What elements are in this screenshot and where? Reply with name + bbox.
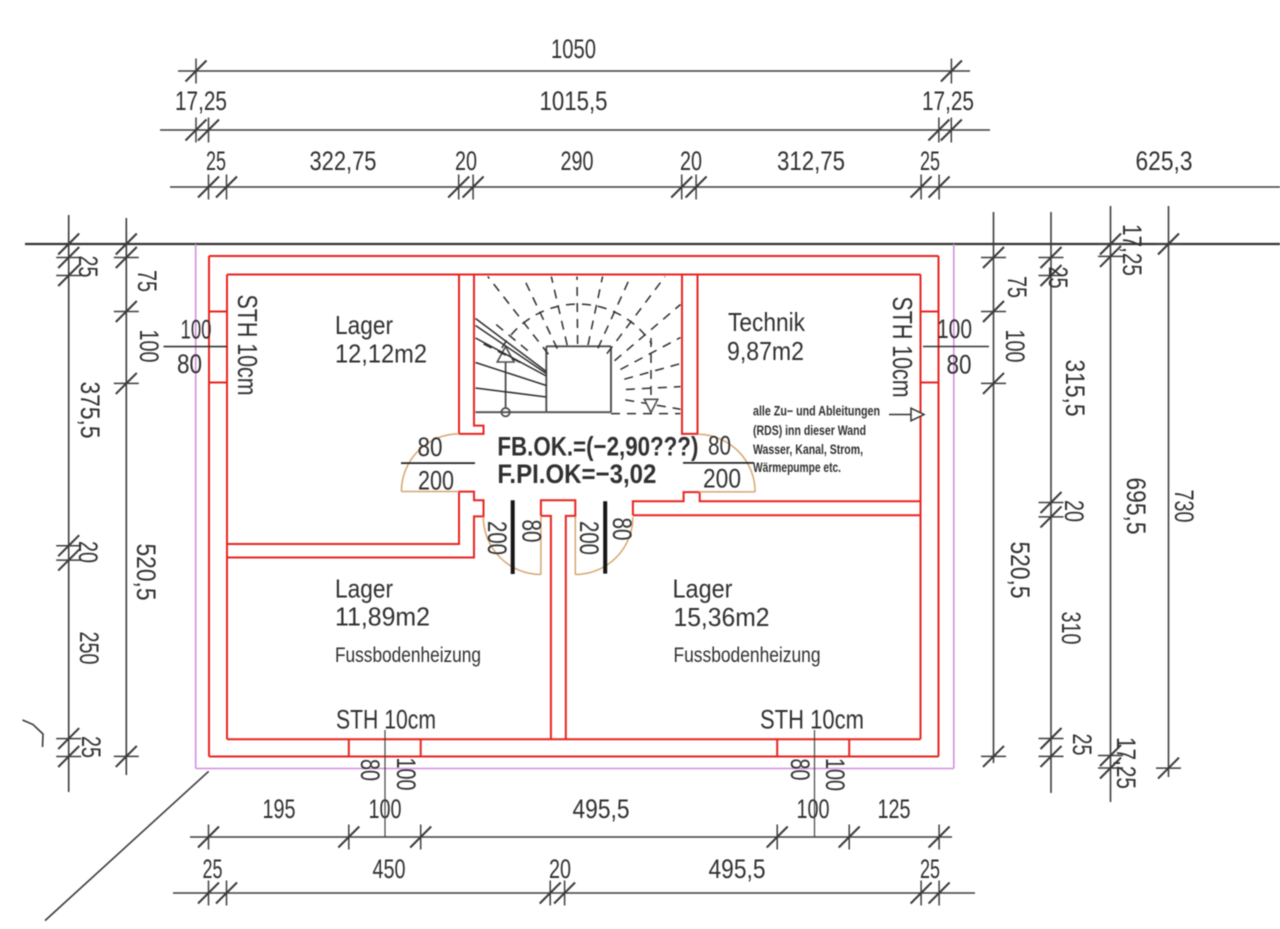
svg-text:STH 10cm: STH 10cm: [336, 705, 436, 735]
tick b1 5: [938, 825, 940, 850]
door2 arc: [483, 517, 541, 575]
tick b1 1: [348, 825, 350, 850]
svg-text:75: 75: [132, 270, 162, 292]
outer wall bottom: [209, 756, 939, 758]
svg-text:495,5: 495,5: [709, 854, 766, 884]
tick b1 2: [420, 825, 422, 850]
svg-text:520,5: 520,5: [131, 544, 161, 601]
stair void bottom edge: [546, 411, 611, 413]
svg-text:450: 450: [373, 854, 406, 884]
lager11 north wall: [227, 492, 484, 558]
svg-text:730: 730: [1169, 490, 1199, 523]
left dim line v1: [68, 215, 70, 792]
tick top1 right: [950, 59, 952, 84]
svg-text:625,3: 625,3: [1136, 146, 1193, 176]
stair walking base line: [476, 411, 547, 413]
stair winder dashed ray 8: [598, 277, 631, 349]
boundary diagonal line: [45, 771, 209, 920]
svg-text:20: 20: [549, 854, 571, 884]
svg-text:STH 10cm: STH 10cm: [887, 297, 918, 398]
outer wall left: [208, 256, 210, 757]
svg-text:17,25: 17,25: [1111, 737, 1141, 789]
svg-text:Fussbodenheizung: Fussbodenheizung: [674, 644, 821, 667]
tick b1 3: [776, 825, 778, 850]
svg-text:495,5: 495,5: [573, 794, 630, 824]
door1 arc: [401, 434, 459, 492]
tick vA 2: [981, 382, 1006, 384]
tick vC 1: [1098, 255, 1123, 257]
svg-text:290: 290: [561, 146, 594, 176]
svg-text:100: 100: [1000, 330, 1030, 363]
svg-text:Fussbodenheizung: Fussbodenheizung: [335, 644, 481, 667]
tick vA 0: [981, 257, 1006, 259]
right dim line vD: [1168, 206, 1170, 777]
tick b2 3: [564, 881, 566, 906]
svg-text:17,25: 17,25: [1117, 224, 1147, 276]
tick b1 4: [848, 825, 850, 850]
svg-text:125: 125: [878, 794, 911, 824]
inner wall bottom: [227, 738, 921, 740]
magenta line right: [953, 244, 955, 769]
svg-text:375,5: 375,5: [75, 382, 105, 439]
tick top3 4: [681, 175, 683, 200]
svg-text:Lager: Lager: [335, 310, 393, 340]
door1 leaf: [401, 491, 459, 493]
stair void right edge: [610, 346, 612, 412]
dimension line top chain 1 (1050): [178, 70, 970, 72]
tick b2 4: [920, 881, 922, 906]
svg-text:100: 100: [134, 330, 164, 363]
dimension line top chain 2 (17,25 / 1015,5 / 17,25): [160, 129, 990, 131]
svg-text:200: 200: [482, 521, 512, 555]
tick b2 5: [938, 881, 940, 906]
svg-text:11,89m2: 11,89m2: [335, 602, 430, 632]
stair tread line 3: [476, 338, 547, 376]
stair winder dashed ray 12: [624, 364, 680, 380]
left dim line v2: [125, 218, 127, 775]
svg-text:9,87m2: 9,87m2: [727, 336, 804, 366]
svg-text:80: 80: [418, 432, 443, 462]
door3 panel line: [603, 501, 607, 573]
STH stub right wall bottom: [921, 382, 939, 384]
STH stub right wall top: [921, 311, 939, 313]
tick vB 0: [1039, 257, 1064, 259]
stair winder dashed ray 2: [492, 321, 528, 351]
tick vB 2: [1039, 502, 1064, 504]
tick vC 0: [1098, 243, 1123, 245]
tick v2 1: [114, 311, 139, 313]
tick top2 d: [950, 118, 952, 143]
svg-text:25: 25: [920, 146, 940, 176]
tick v1 5: [56, 756, 81, 758]
svg-text:STH 10cm: STH 10cm: [760, 705, 864, 735]
magenta line left: [195, 244, 197, 769]
stair winder dashed ray 4: [523, 277, 557, 349]
svg-text:1015,5: 1015,5: [540, 86, 608, 116]
magenta line bottom: [196, 768, 954, 770]
tick v1 4: [56, 738, 81, 740]
svg-text:80: 80: [947, 350, 972, 380]
door1 fraction line: [401, 462, 475, 464]
svg-text:195: 195: [263, 794, 296, 824]
svg-text:(RDS) inn dieser Wand: (RDS) inn dieser Wand: [753, 423, 866, 438]
svg-text:17,25: 17,25: [922, 86, 974, 116]
svg-text:20: 20: [1059, 500, 1089, 522]
stair winder dashed ray 13: [626, 387, 681, 390]
stair winder dashed ray 5: [551, 277, 567, 346]
svg-text:17,25: 17,25: [175, 86, 227, 116]
stair walking start circle: [501, 408, 509, 416]
stair tread line 5: [476, 388, 547, 397]
right dim line vB: [1050, 212, 1052, 793]
tick vC 3: [1098, 767, 1123, 769]
svg-text:200: 200: [418, 466, 454, 496]
tick top3 5: [695, 175, 697, 200]
stair void top edge: [546, 345, 611, 347]
svg-text:Lager: Lager: [673, 574, 733, 604]
tick b1 0: [208, 825, 210, 850]
right STH line: [923, 346, 989, 348]
svg-text:322,75: 322,75: [310, 146, 377, 176]
tick top3 7: [938, 175, 940, 200]
stair tread line 1: [476, 319, 547, 372]
svg-text:100: 100: [181, 315, 212, 345]
tick ref x68: [68, 232, 70, 257]
reference line y244: [25, 243, 1280, 245]
svg-text:12,12m2: 12,12m2: [335, 339, 427, 369]
tick v1 1: [56, 275, 81, 277]
svg-text:20: 20: [73, 541, 103, 563]
svg-text:80: 80: [708, 431, 731, 461]
door4 arc: [699, 434, 755, 492]
right dim line vC: [1110, 206, 1112, 802]
svg-text:25: 25: [206, 146, 226, 176]
tick vD 1: [1156, 767, 1181, 769]
svg-text:20: 20: [680, 146, 702, 176]
door4 leaf: [699, 491, 755, 493]
tick vB 1: [1039, 275, 1064, 277]
svg-text:310: 310: [1056, 612, 1086, 645]
svg-text:100: 100: [391, 758, 421, 791]
tick vA 3: [981, 755, 1006, 757]
tick top3 1: [226, 175, 228, 200]
svg-text:Wasser, Kanal, Strom,: Wasser, Kanal, Strom,: [753, 442, 863, 457]
tick top2 b: [208, 118, 210, 143]
tick top2 a: [195, 118, 197, 143]
stair winder dashed ray 6: [576, 277, 579, 345]
stair winder dashed ray 1: [478, 341, 520, 362]
lager15 north wall band: [633, 492, 921, 515]
stair winder dashed ray 3: [488, 277, 549, 355]
STH stub bottom wall left a: [348, 739, 350, 756]
central T wall: [541, 500, 575, 739]
tick v2 0: [114, 257, 139, 259]
svg-text:25: 25: [73, 256, 103, 278]
bottom dim line b2: [173, 892, 975, 894]
tick b2 2: [549, 881, 551, 906]
tick vB 4: [1039, 738, 1064, 740]
svg-text:20: 20: [455, 146, 477, 176]
svg-text:250: 250: [74, 632, 104, 665]
svg-text:315,5: 315,5: [1060, 360, 1090, 417]
svg-text:695,5: 695,5: [1121, 478, 1151, 535]
door4 fraction line: [683, 462, 754, 464]
stair down arrowhead: [644, 399, 657, 412]
note arrow: [889, 414, 911, 416]
svg-text:520,5: 520,5: [1005, 542, 1035, 599]
tick top2 c: [938, 118, 940, 143]
STH stub bottom wall right b: [848, 739, 850, 756]
stair walking up arrowhead: [497, 347, 514, 363]
door3 arc: [575, 517, 633, 575]
STH stub bottom wall left b: [420, 739, 422, 756]
right dim line vA: [993, 212, 995, 763]
stair void left edge: [545, 346, 547, 412]
svg-text:F.PI.OK=−3,02: F.PI.OK=−3,02: [497, 459, 656, 489]
tick vC 2: [1098, 755, 1123, 757]
tick top3 0: [208, 175, 210, 200]
door3 leaf: [574, 517, 576, 575]
tick top3 3: [472, 175, 474, 200]
stair winder dashed ray 7: [588, 277, 603, 346]
bottom dim line b1: [190, 836, 952, 838]
svg-text:80: 80: [785, 759, 815, 781]
svg-text:15,36m2: 15,36m2: [674, 602, 770, 632]
STH stub bottom wall right a: [776, 739, 778, 756]
svg-text:80: 80: [517, 520, 547, 543]
svg-text:75: 75: [1002, 276, 1032, 298]
svg-text:80: 80: [355, 759, 385, 781]
svg-text:200: 200: [574, 521, 604, 555]
tick top3 6: [920, 175, 922, 200]
tick b2 0: [208, 881, 210, 906]
svg-text:80: 80: [177, 349, 202, 379]
STH stub left wall top: [209, 311, 227, 313]
tick vA 1: [981, 311, 1006, 313]
svg-text:100: 100: [820, 758, 850, 791]
stair down dashed line: [650, 338, 652, 399]
svg-text:80: 80: [607, 518, 637, 541]
stair tread line 4: [476, 363, 547, 386]
bottom right STH vline: [814, 730, 816, 837]
tick top1 left: [195, 59, 197, 84]
svg-text:25: 25: [1043, 267, 1073, 289]
tick ref x126: [125, 232, 127, 257]
stair winder dashed ray 9: [607, 277, 665, 354]
dimension line top chain 3 (25/322,75/20/290/20/312,75/25/625,3): [170, 186, 1280, 188]
tick vB 3: [1039, 516, 1064, 518]
inner wall left: [226, 275, 228, 740]
tick v1 0: [56, 257, 81, 259]
tick top3 2: [458, 175, 460, 200]
left STH line: [164, 346, 228, 348]
stair west wall: [459, 275, 484, 434]
inner wall right: [920, 275, 922, 740]
tick v2 3: [114, 755, 139, 757]
break mark squiggle: [23, 720, 44, 747]
svg-text:25: 25: [920, 854, 940, 884]
svg-text:STH 10cm: STH 10cm: [232, 295, 263, 396]
stair winder dashed ray 14: [625, 400, 680, 409]
door2 leaf: [540, 517, 542, 575]
tick vD 0: [1156, 243, 1181, 245]
tick v2 2: [114, 382, 139, 384]
svg-text:Lager: Lager: [335, 574, 393, 604]
svg-text:1050: 1050: [551, 34, 596, 64]
svg-text:alle Zu− und Ableitungen: alle Zu− und Ableitungen: [753, 404, 880, 419]
stair winder dashed ray 10: [615, 305, 681, 361]
svg-text:312,75: 312,75: [777, 146, 845, 176]
stair tread line 2: [476, 326, 547, 374]
stair void dashed bottom: [611, 413, 681, 415]
tick vB 5: [1039, 755, 1064, 757]
bottom left STH vline: [384, 730, 386, 837]
outer wall right: [938, 256, 940, 757]
svg-text:FB.OK.=(−2,90???): FB.OK.=(−2,90???): [497, 432, 698, 462]
tick v1 2: [56, 545, 81, 547]
stair walking dashed arc: [502, 304, 652, 348]
stair east wall: [682, 275, 698, 434]
svg-text:200: 200: [703, 464, 741, 494]
svg-text:25: 25: [203, 854, 223, 884]
door2 panel line: [511, 500, 515, 574]
svg-text:25: 25: [1067, 734, 1097, 756]
svg-text:100: 100: [937, 314, 972, 344]
stair walking up line: [505, 362, 507, 409]
inner wall top: [227, 274, 921, 276]
svg-text:25: 25: [76, 736, 106, 758]
stair winder dashed ray 11: [620, 338, 680, 370]
outer wall top: [209, 255, 939, 257]
svg-text:100: 100: [797, 794, 830, 824]
tick v1 3: [56, 559, 81, 561]
tick b2 1: [226, 881, 228, 906]
svg-text:Wärmepumpe etc.: Wärmepumpe etc.: [753, 460, 841, 475]
svg-text:Technik: Technik: [728, 307, 806, 337]
STH stub left wall bottom: [209, 382, 227, 384]
